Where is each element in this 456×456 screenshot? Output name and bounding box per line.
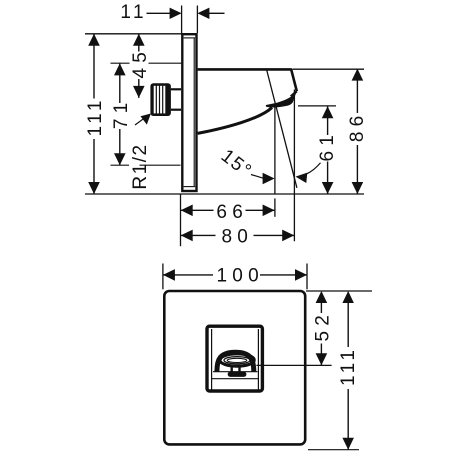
dimension 11 (plate thickness) [147,6,225,34]
escutcheon square (front view) [164,291,305,444]
dimension 80 [181,230,295,242]
vertical extension line at spout tip (80) [293,90,295,242]
bottom datum line [85,193,364,195]
svg-text:86: 86 [347,111,368,143]
spout top extension right (86) [293,68,364,70]
dimension 100 [163,264,307,290]
vertical extension line at spout outlet (66) [274,105,276,193]
svg-text:80: 80 [222,227,254,248]
spout body (side view) [198,69,297,133]
dimension 45 [133,34,145,98]
dimension 111 (plate height, side view) [88,34,100,194]
svg-text:45: 45 [130,47,151,79]
svg-text:52: 52 [312,310,333,342]
15 deg reference slant line [267,70,297,188]
52 reference line [256,364,331,366]
dimension 52 [316,291,328,365]
top extension right of square [306,290,372,292]
dimension 86 [352,69,364,194]
dimension 71 [114,63,126,165]
outlet horizontal extension (61) [298,105,336,107]
svg-text:61: 61 [317,130,338,162]
spout aperture box (front view) [207,326,262,391]
svg-text:15°: 15° [217,145,256,182]
R 1/2 leader [135,114,151,126]
svg-text:111: 111 [85,97,106,136]
71 bottom extension ticks [111,164,130,166]
spout arch (front view) [217,352,254,372]
aerator rings [220,354,254,366]
plate top extension left [85,33,182,35]
dimension 61 [322,106,334,194]
svg-text:71: 71 [111,98,132,130]
bottom extension right of square [308,449,359,451]
svg-text:66: 66 [216,202,248,223]
wall plate (side view) [182,34,196,191]
dimension texts [85,2,368,386]
aerator tab [228,365,247,377]
15 deg leader arrows [251,163,321,185]
svg-text:11: 11 [120,2,147,23]
threaded inlet connector R1/2 [150,83,181,116]
svg-text:100: 100 [217,266,264,287]
svg-text:111: 111 [338,347,359,386]
71 top extension ticks [111,62,130,64]
dimension 66 [181,194,275,246]
dimension 111 (front view) [342,291,354,450]
svg-text:R1/2: R1/2 [130,143,151,189]
